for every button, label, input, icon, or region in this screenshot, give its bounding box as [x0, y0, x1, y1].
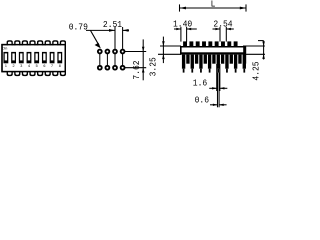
svg-text:4.25: 4.25	[251, 61, 262, 80]
actuator bump 8	[227, 41, 231, 46]
2.54 right arrow	[226, 28, 234, 30]
1.40 ext line left	[180, 27, 182, 42]
svg-text:1.40: 1.40	[173, 19, 192, 30]
extension line col4 up	[122, 27, 124, 49]
2.54 ext line right	[225, 27, 227, 42]
pin shoulder tooth (far row) 5	[221, 55, 224, 64]
4.25 ext line top	[243, 45, 265, 47]
bottom pin 4 (top view)	[29, 71, 35, 76]
pad hole col1 row2	[97, 65, 103, 71]
pad hole col4 row1	[120, 49, 126, 55]
side view body top line	[180, 46, 246, 48]
actuator bump 1	[183, 41, 187, 46]
0.6 right arrow	[219, 104, 227, 106]
pin shoulder tooth (far row) 4	[212, 55, 215, 64]
pad hole col3 row2	[112, 65, 118, 71]
bottom pin 8 (top view)	[60, 71, 66, 76]
bottom pin 5 (top view)	[37, 71, 43, 76]
4.25 vertical line	[263, 41, 265, 60]
svg-text:2: 2	[13, 64, 15, 68]
svg-text:0.6: 0.6	[195, 95, 209, 106]
dimension 2.51 line right w/ arrow	[123, 29, 129, 31]
top pin 3 (top view)	[22, 40, 28, 45]
pin leg 7 (near row)	[234, 55, 237, 69]
bottom pin 2 (top view)	[14, 71, 20, 76]
top pin 1 (top view)	[7, 40, 13, 45]
0.6 ext line left	[216, 73, 218, 108]
svg-text:3.25: 3.25	[148, 57, 159, 76]
body outline overdraw	[2, 45, 65, 72]
svg-text:1.6: 1.6	[193, 78, 207, 89]
switch window 8	[57, 52, 62, 63]
pin shoulder tooth (far row) 6	[230, 55, 233, 64]
pin shoulder tooth (far row) 1	[186, 55, 189, 64]
svg-text:4: 4	[28, 64, 30, 68]
svg-text:2.51: 2.51	[103, 20, 122, 31]
switch window 1	[3, 52, 8, 63]
bottom pin 3 (top view)	[22, 71, 28, 76]
3.25 ext line top (body top extended)	[160, 45, 181, 47]
pin shoulder tooth (far row) 7	[238, 55, 241, 64]
right end wall lower	[243, 55, 246, 64]
1.6 ext line left	[216, 64, 218, 91]
4.25 ext line bottom	[243, 53, 265, 55]
hole column 2 connecting wire	[106, 52, 108, 68]
2.54 ext line left	[219, 27, 221, 42]
pad hole col1 row1	[97, 49, 103, 55]
switch window 3	[19, 52, 24, 63]
pin leg 6 (near row)	[225, 55, 228, 69]
top pin 6 (top view)	[45, 40, 51, 45]
actuator bump 4	[202, 41, 206, 46]
bottom pin 6 (top view)	[45, 71, 51, 76]
actuator bump 9	[234, 41, 238, 46]
L dimension line	[180, 7, 246, 9]
leader line 0.79	[91, 31, 100, 46]
pad hole col3 row1	[112, 49, 118, 55]
pad hole col2 row2	[105, 65, 111, 71]
switch window 6	[42, 52, 47, 63]
4.25 top tick	[258, 40, 264, 42]
0.6 left arrow	[210, 104, 218, 106]
top pin 7 (top view)	[52, 40, 58, 45]
svg-text:2.54: 2.54	[213, 19, 232, 30]
top pin 8 (top view)	[60, 40, 66, 45]
hole column 1 connecting wire	[99, 52, 101, 68]
3.25 arrow up	[162, 54, 165, 59]
0.6 ext line right	[218, 73, 220, 108]
7.62 arrow up	[142, 68, 145, 73]
actuator bump 7	[221, 41, 225, 46]
4.25 arrow up	[262, 54, 265, 59]
side view body right wall	[243, 46, 246, 55]
switch window 4	[27, 52, 32, 63]
svg-text:On: On	[2, 46, 7, 51]
DIP switch top view body outline	[2, 45, 65, 72]
L left arrow	[180, 7, 187, 10]
pin shoulder tooth (far row) 3	[204, 55, 207, 64]
hole column 4 connecting wire	[122, 52, 124, 68]
side view body bottom band (seating)	[180, 52, 246, 54]
switch window 2	[11, 52, 16, 63]
pad hole col4 row2	[120, 65, 126, 71]
svg-text:5: 5	[36, 64, 38, 68]
svg-text:7: 7	[51, 64, 53, 68]
dimension 2.51 line left w/ arrow	[86, 29, 115, 31]
pin shoulder tooth (far row) 2	[195, 55, 198, 64]
extension line col3 up	[114, 27, 116, 49]
3.25 arrow down	[162, 41, 165, 46]
1.40 left arrow	[174, 28, 181, 30]
actuator bump 6	[215, 41, 219, 46]
switch window 7	[50, 52, 55, 63]
extension line top row right	[125, 51, 146, 53]
dimension 7.62 vertical line	[142, 39, 144, 80]
actuator bump 3	[196, 41, 200, 46]
switch window 5	[34, 52, 39, 63]
bottom pin 7 (top view)	[52, 71, 58, 76]
1.40 ext line right	[186, 27, 188, 42]
top pin 2 (top view)	[14, 40, 20, 45]
2.54 left arrow	[213, 28, 221, 30]
svg-text:6: 6	[43, 64, 45, 68]
actuator bump 2	[189, 41, 193, 46]
pin leg 5 (near row)	[217, 55, 220, 69]
7.62 arrow down	[142, 47, 145, 52]
L right arrow	[240, 7, 247, 10]
pin leg 1 (near row)	[182, 55, 185, 69]
bottom pin 1 (top view)	[7, 71, 13, 76]
side view body left wall	[180, 46, 182, 55]
3.25 ext line bottom (seating extended)	[158, 53, 181, 55]
1.6 left arrow	[209, 87, 217, 89]
svg-text:8: 8	[59, 64, 61, 68]
svg-text:7.62: 7.62	[132, 60, 143, 79]
1.6 right arrow	[220, 87, 228, 89]
svg-text:1: 1	[5, 64, 7, 68]
svg-text:L: L	[211, 0, 216, 10]
4.25 arrow down	[262, 41, 265, 46]
hole column 3 connecting wire	[114, 52, 116, 68]
L right tick	[245, 4, 247, 11]
leader arrowhead 0.79	[95, 43, 101, 49]
actuator bump 5	[208, 41, 212, 46]
pin leg 3 (near row)	[199, 55, 202, 69]
pin leg 8 (near row)	[243, 55, 246, 69]
extension line bottom row right	[125, 67, 146, 69]
svg-text:0.79: 0.79	[69, 22, 88, 33]
1.6 ext line right	[219, 64, 221, 91]
svg-text:3: 3	[20, 64, 22, 68]
top pin 4 (top view)	[29, 40, 35, 45]
3.25 vertical line	[162, 37, 164, 64]
L left tick	[179, 4, 181, 11]
pin leg 2 (near row)	[191, 55, 194, 69]
1.40 right arrow	[187, 28, 197, 30]
top pin 5 (top view)	[37, 40, 43, 45]
pad hole col2 row1	[105, 49, 111, 55]
pin leg 4 (near row)	[208, 55, 211, 69]
